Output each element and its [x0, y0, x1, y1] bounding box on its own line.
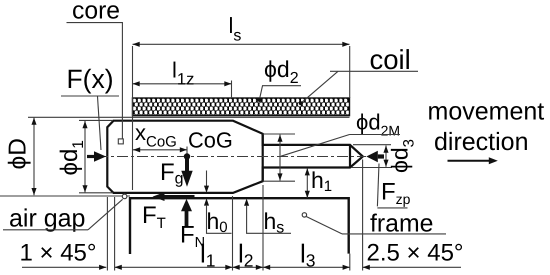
dimension phid3 arrow — [385, 146, 387, 167]
force F(x) arrow — [87, 155, 96, 158]
svg-text:core: core — [72, 0, 120, 25]
dimension l2 — [233, 266, 264, 268]
svg-text:1 × 45°: 1 × 45° — [20, 240, 97, 267]
extension line l1z right — [231, 81, 233, 99]
extension lines phid3 — [353, 144, 391, 146]
dimension phiD — [33, 118, 35, 196]
dimension l1z — [133, 83, 232, 85]
dimension h0 — [206, 171, 208, 187]
dimension h1 — [306, 168, 308, 198]
extension line x362 — [362, 160, 364, 271]
dimension phid2M arrow — [279, 135, 281, 181]
svg-text:2.5 × 45°: 2.5 × 45° — [367, 240, 464, 267]
frame left plate line — [0, 195, 130, 197]
core (plunger) outline — [107, 121, 362, 193]
dimension hs — [244, 199, 249, 206]
svg-text:movement: movement — [428, 98, 545, 126]
force FT — [165, 195, 195, 198]
dimension 1x45 — [22, 266, 106, 268]
dimension l1 — [115, 266, 233, 268]
force Fg — [185, 158, 189, 172]
force Fzp — [366, 151, 378, 162]
core step face line — [262, 134, 264, 181]
extension line x114 — [114, 197, 116, 271]
frame top plate line — [28, 116, 350, 118]
extension line coil left — [132, 46, 134, 190]
dimension phid1 — [84, 121, 86, 192]
frame cross-section — [130, 198, 349, 254]
core cone base line — [349, 145, 351, 168]
CoG point — [184, 153, 190, 159]
svg-text:direction: direction — [434, 128, 529, 156]
svg-text:ϕD: ϕD — [5, 138, 32, 169]
dimension 2.5x45 — [363, 266, 461, 268]
force FN — [185, 210, 189, 228]
extension line x232 — [232, 196, 234, 271]
dimension l3 — [263, 266, 350, 268]
coil winding — [133, 98, 350, 116]
dimension ls — [133, 43, 350, 45]
svg-text:F(x): F(x) — [67, 64, 114, 94]
svg-text:CoG: CoG — [188, 128, 233, 153]
extension line x350 bottom — [349, 254, 351, 271]
extension line x263 — [262, 185, 264, 271]
svg-text:coil: coil — [370, 44, 411, 75]
center line — [97, 156, 366, 158]
extension lines phid1 — [79, 119, 113, 121]
extension lines phid2M — [263, 133, 295, 135]
extension line coil right — [349, 46, 351, 98]
extension line x107 — [106, 197, 108, 271]
svg-text:air gap: air gap — [9, 205, 85, 233]
dimension xCoG — [133, 149, 187, 151]
